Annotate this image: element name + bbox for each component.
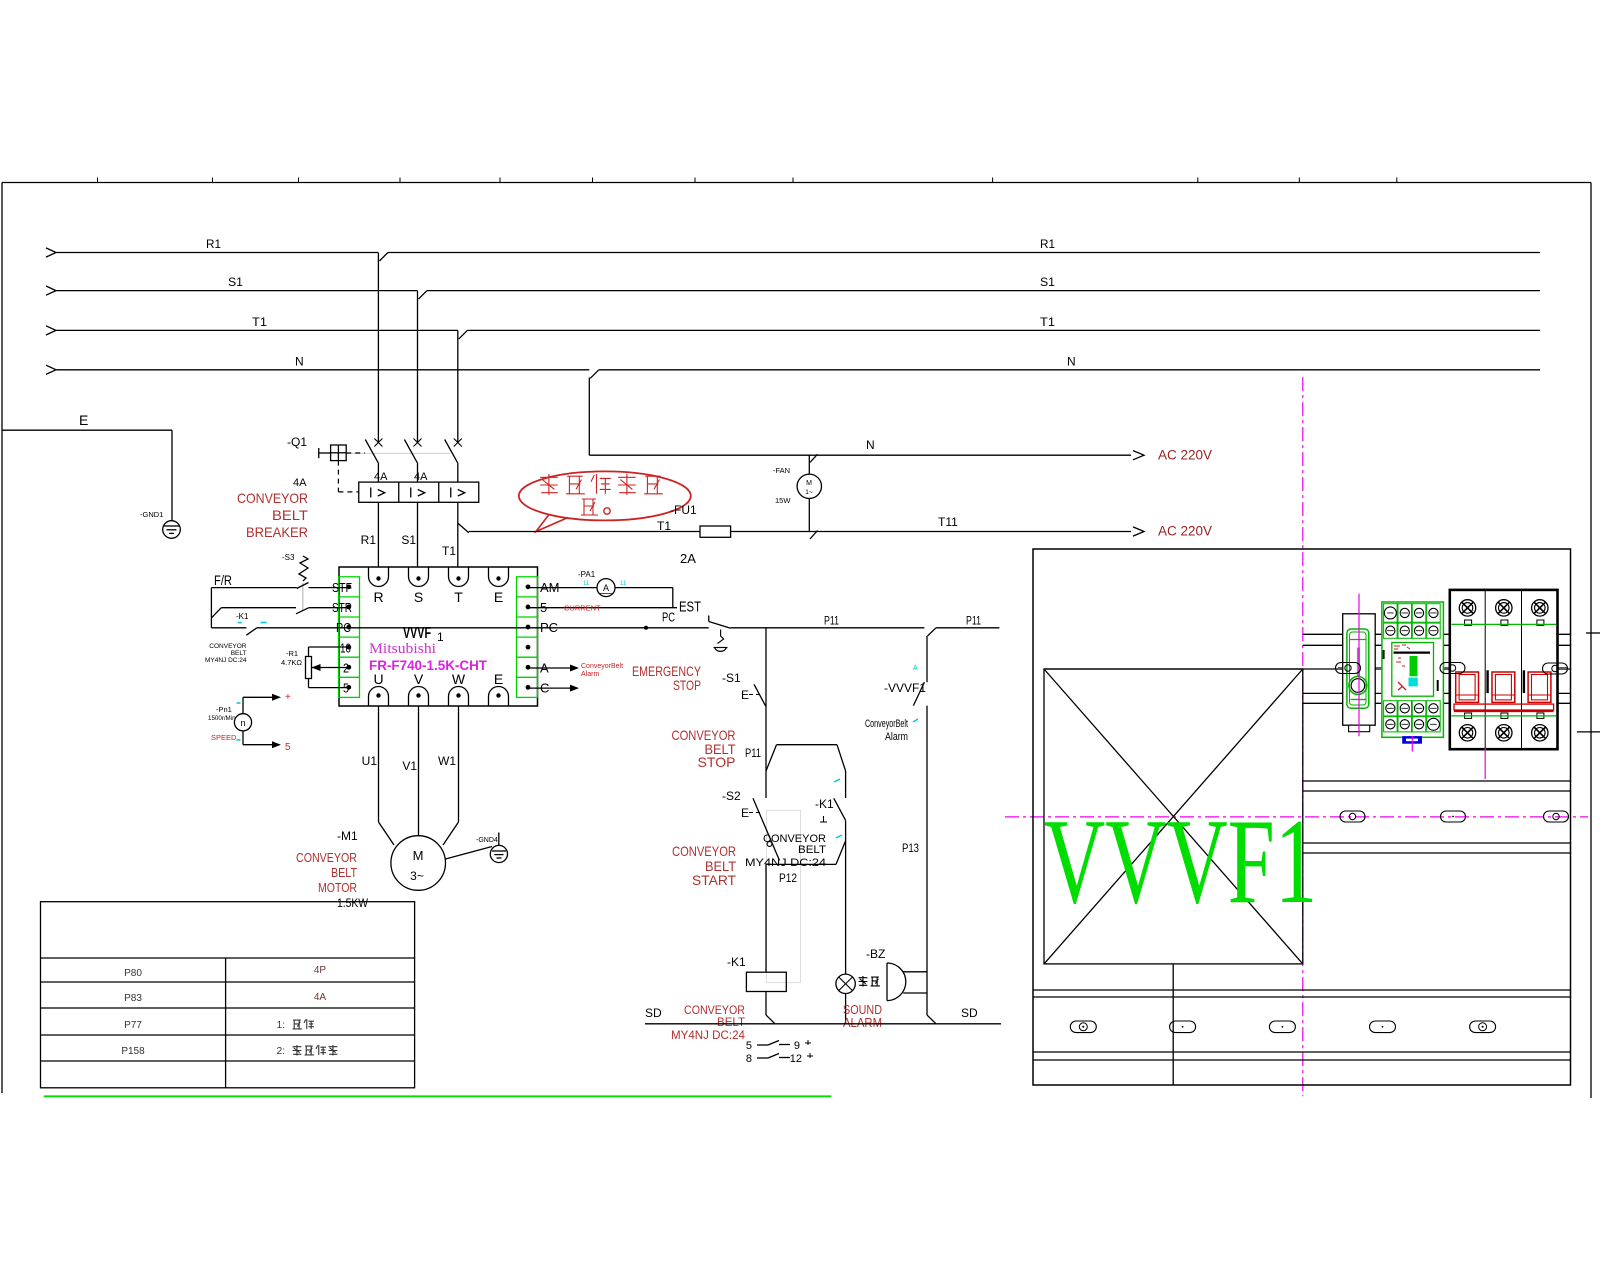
svg-text:1:: 1: xyxy=(277,1020,285,1031)
svg-text:CONVEYOR: CONVEYOR xyxy=(296,850,357,865)
svg-text:MY4NJ DC:24: MY4NJ DC:24 xyxy=(745,857,826,869)
svg-text:A: A xyxy=(913,665,918,672)
svg-text:-K1: -K1 xyxy=(727,955,746,969)
svg-text:-BZ: -BZ xyxy=(866,947,885,961)
svg-text:4A: 4A xyxy=(293,477,307,489)
svg-text:BELT: BELT xyxy=(717,1015,746,1029)
svg-text:5: 5 xyxy=(285,742,291,753)
svg-text:E: E xyxy=(494,589,503,605)
svg-text:R: R xyxy=(373,589,383,605)
svg-text:START: START xyxy=(692,872,736,888)
svg-text:-S1: -S1 xyxy=(722,671,741,685)
svg-text:MY4NJ DC:24: MY4NJ DC:24 xyxy=(205,657,247,664)
svg-text:VVVF1: VVVF1 xyxy=(1044,793,1317,929)
svg-text:-PA1: -PA1 xyxy=(578,570,596,579)
svg-text:P12: P12 xyxy=(779,871,797,885)
svg-text:MOTOR: MOTOR xyxy=(318,880,357,895)
svg-text:ConveyorBelt: ConveyorBelt xyxy=(581,663,623,670)
svg-text:ConveyorBelt: ConveyorBelt xyxy=(865,718,908,730)
svg-text:P11: P11 xyxy=(824,614,839,628)
svg-text:CONVEYOR: CONVEYOR xyxy=(209,643,247,650)
svg-text:P77: P77 xyxy=(124,1020,142,1031)
svg-text:Alarm: Alarm xyxy=(885,731,908,743)
svg-text:BELT: BELT xyxy=(272,507,308,523)
svg-text:12: 12 xyxy=(790,1053,802,1065)
svg-text:BELT: BELT xyxy=(798,844,826,856)
svg-text:4A: 4A xyxy=(314,992,327,1003)
svg-text:T1: T1 xyxy=(1040,315,1055,329)
svg-text:M: M xyxy=(413,848,424,863)
svg-text:-M1: -M1 xyxy=(337,829,358,843)
svg-text:n: n xyxy=(240,718,245,728)
svg-text:STOP: STOP xyxy=(698,754,736,770)
svg-text:Alarm: Alarm xyxy=(581,671,599,678)
svg-text:4.7KΩ: 4.7KΩ xyxy=(281,658,302,667)
svg-text:11: 11 xyxy=(620,581,627,587)
svg-text:E: E xyxy=(741,806,749,820)
svg-text:T1: T1 xyxy=(657,519,671,533)
svg-text:W: W xyxy=(452,671,466,687)
svg-text:-GND4: -GND4 xyxy=(476,837,498,844)
svg-text:2A: 2A xyxy=(680,551,696,566)
svg-text:1500r/Min: 1500r/Min xyxy=(208,715,236,722)
svg-text:R1: R1 xyxy=(206,237,221,251)
svg-text:BELT: BELT xyxy=(331,865,357,880)
svg-text:S1: S1 xyxy=(228,275,243,289)
svg-text:STOP: STOP xyxy=(673,677,701,693)
svg-text:-K1: -K1 xyxy=(815,797,834,811)
svg-text:4A: 4A xyxy=(374,471,388,483)
svg-text:11: 11 xyxy=(583,581,590,587)
svg-text:SD: SD xyxy=(961,1006,978,1020)
svg-text:-VVVF1: -VVVF1 xyxy=(884,681,926,695)
svg-text:SPEED: SPEED xyxy=(211,733,237,742)
svg-text:N: N xyxy=(866,438,875,452)
svg-text:T11: T11 xyxy=(938,515,958,529)
svg-text:R1: R1 xyxy=(1040,237,1055,251)
svg-text:T1: T1 xyxy=(442,544,456,558)
svg-text:E: E xyxy=(79,412,88,428)
svg-text:ALARM: ALARM xyxy=(843,1015,882,1030)
svg-text:N: N xyxy=(1067,354,1076,368)
svg-text:Mitsubishi: Mitsubishi xyxy=(369,641,436,657)
svg-text:M: M xyxy=(806,480,812,487)
svg-text:+: + xyxy=(285,692,291,703)
svg-text:V: V xyxy=(414,671,424,687)
svg-text:E: E xyxy=(494,671,503,687)
svg-text:U: U xyxy=(373,671,383,687)
svg-text:-FU1: -FU1 xyxy=(670,503,697,517)
svg-text:MY4NJ DC:24: MY4NJ DC:24 xyxy=(671,1028,745,1042)
svg-text:VVVF: VVVF xyxy=(403,625,431,642)
svg-text:AC 220V: AC 220V xyxy=(1158,448,1212,463)
svg-text:P11: P11 xyxy=(745,746,761,760)
svg-text:E: E xyxy=(741,688,749,702)
svg-text:S: S xyxy=(414,589,423,605)
svg-text:3~: 3~ xyxy=(410,869,424,883)
svg-text:1.5KW: 1.5KW xyxy=(337,896,369,910)
svg-text:P11: P11 xyxy=(966,614,981,628)
svg-text:-S3: -S3 xyxy=(282,553,295,562)
svg-text:V1: V1 xyxy=(402,759,417,773)
svg-text:SD: SD xyxy=(645,1006,662,1020)
svg-text:BREAKER: BREAKER xyxy=(246,524,308,540)
svg-text:N: N xyxy=(295,354,304,368)
svg-text:-GND1: -GND1 xyxy=(140,510,163,519)
svg-text:CURRENT: CURRENT xyxy=(564,604,601,613)
svg-text:P80: P80 xyxy=(124,968,142,979)
svg-text:EST: EST xyxy=(679,599,701,616)
svg-text:FR-F740-1.5K-CHT: FR-F740-1.5K-CHT xyxy=(369,657,487,673)
svg-text:P13: P13 xyxy=(902,841,919,855)
svg-text:CONVEYOR: CONVEYOR xyxy=(237,490,308,506)
svg-text:9: 9 xyxy=(794,1040,800,1052)
svg-text:1~: 1~ xyxy=(805,489,813,496)
svg-text:-Pn1: -Pn1 xyxy=(216,705,232,714)
svg-text:CONVEYOR: CONVEYOR xyxy=(672,843,736,859)
svg-text:A: A xyxy=(603,583,609,593)
svg-text:T: T xyxy=(454,589,463,605)
svg-text:-Q1: -Q1 xyxy=(287,435,307,449)
svg-text:-K1: -K1 xyxy=(236,612,249,621)
svg-text:S1: S1 xyxy=(401,533,416,547)
svg-text:5: 5 xyxy=(746,1040,752,1052)
svg-text:8: 8 xyxy=(746,1053,752,1065)
svg-text:P83: P83 xyxy=(124,993,142,1004)
svg-text:U1: U1 xyxy=(362,754,378,768)
svg-text:PC: PC xyxy=(662,610,675,625)
svg-text:F/R: F/R xyxy=(214,572,232,588)
svg-text:T1: T1 xyxy=(252,315,267,329)
svg-text:AC 220V: AC 220V xyxy=(1158,524,1212,539)
svg-text:S1: S1 xyxy=(1040,275,1055,289)
svg-text:4A: 4A xyxy=(414,471,428,483)
svg-text:-S2: -S2 xyxy=(722,789,741,803)
svg-text:-FAN: -FAN xyxy=(773,466,790,475)
svg-text:R1: R1 xyxy=(361,533,377,547)
svg-text:-R1: -R1 xyxy=(286,649,298,658)
svg-text:15W: 15W xyxy=(775,496,791,505)
svg-text:W1: W1 xyxy=(438,754,456,768)
svg-text:P158: P158 xyxy=(121,1046,145,1057)
svg-text:4P: 4P xyxy=(314,965,327,976)
svg-text:10: 10 xyxy=(340,640,351,655)
svg-text:BELT: BELT xyxy=(231,650,247,657)
svg-text:1: 1 xyxy=(437,630,444,644)
svg-text:2:: 2: xyxy=(277,1046,285,1057)
